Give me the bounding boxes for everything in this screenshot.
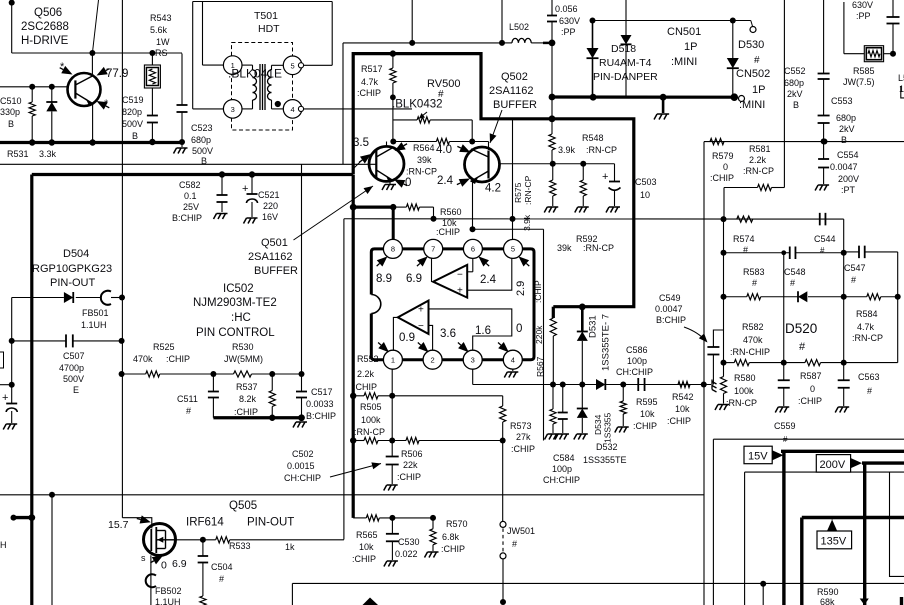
section border	[890, 472, 904, 576]
svg-text:C511: C511	[177, 394, 198, 404]
resistor R575	[544, 164, 558, 213]
resistor R570	[425, 518, 439, 558]
label R575 rotated	[513, 175, 533, 205]
svg-text:C586: C586	[626, 345, 648, 355]
svg-text:R530: R530	[232, 342, 254, 352]
capacitor C517	[296, 374, 307, 418]
diode D517	[621, 0, 632, 97]
connector CN501	[750, 21, 756, 33]
capacitor C552 col	[818, 0, 830, 116]
svg-text:IC502: IC502	[223, 283, 254, 295]
svg-text:#: #	[752, 278, 757, 288]
resistor R525 row	[119, 371, 305, 377]
resistor R574	[737, 216, 753, 222]
svg-text:CH:CHIP: CH:CHIP	[616, 367, 653, 377]
label D504	[32, 248, 112, 289]
resistor R573	[500, 396, 506, 441]
label R580	[726, 373, 757, 408]
inductor L502	[502, 38, 543, 43]
svg-text:R580: R580	[734, 373, 756, 383]
T501 pin1	[223, 56, 242, 75]
wire	[501, 0, 503, 43]
svg-text:R543: R543	[150, 13, 172, 23]
svg-text:L502: L502	[509, 22, 529, 32]
label L5 edge	[898, 73, 904, 94]
ground	[293, 418, 307, 428]
arrow down	[860, 599, 869, 605]
svg-text:0.022: 0.022	[395, 549, 418, 559]
transformer T501 dashed box	[232, 43, 293, 131]
thick bus 135V	[802, 518, 904, 605]
svg-text:C504: C504	[211, 562, 233, 572]
svg-text::RN-CP: :RN-CP	[743, 166, 774, 176]
svg-text:D534: D534	[593, 414, 603, 435]
svg-text:6: 6	[471, 245, 475, 254]
thick bus corner	[553, 304, 585, 319]
svg-text:4.2: 4.2	[485, 183, 501, 195]
wire	[193, 1, 333, 3]
wire	[51, 495, 53, 605]
svg-text::RN-CP: :RN-CP	[852, 333, 883, 343]
label C517	[306, 387, 336, 421]
label R565	[352, 530, 378, 564]
svg-text::CHIP: :CHIP	[710, 173, 734, 183]
svg-text:100k: 100k	[734, 386, 754, 396]
svg-text:R560: R560	[440, 207, 462, 217]
svg-text::RN-CP: :RN-CP	[583, 243, 614, 253]
svg-text::RN-CHIP: :RN-CHIP	[730, 347, 770, 357]
svg-text:15.7: 15.7	[108, 519, 129, 531]
svg-text:C507: C507	[63, 351, 85, 361]
wire	[473, 229, 544, 440]
label R582	[730, 322, 770, 357]
label 4.0	[436, 144, 452, 156]
wire	[0, 382, 15, 388]
svg-text::PP: :PP	[561, 27, 576, 37]
diode D533	[46, 87, 57, 143]
probe arrow 77.9	[58, 61, 112, 112]
svg-text:22k: 22k	[403, 460, 418, 470]
label CN502	[736, 68, 770, 111]
capacitor C519	[147, 116, 158, 143]
wire drain row	[175, 537, 215, 543]
label R564	[406, 143, 437, 177]
wire	[895, 252, 901, 363]
thick vertical	[350, 175, 356, 518]
svg-text:1SS355TE: 1SS355TE	[583, 455, 627, 465]
capacitor C586	[638, 378, 644, 391]
label R548	[558, 133, 617, 155]
label R585	[843, 66, 875, 87]
svg-text::CHIP: :CHIP	[667, 416, 691, 426]
capacitor C516	[2, 385, 17, 430]
wire	[703, 142, 705, 605]
svg-text:500V: 500V	[192, 146, 213, 156]
label C507	[59, 351, 85, 395]
label C544	[814, 234, 836, 255]
svg-text:Q505: Q505	[229, 500, 257, 512]
op-amp U1a wires	[432, 258, 512, 290]
svg-text:−: −	[457, 270, 463, 281]
svg-text:135V: 135V	[821, 536, 847, 548]
arrow 0 Q505	[148, 552, 167, 572]
svg-text:2.2k: 2.2k	[749, 155, 767, 165]
svg-text:200V: 200V	[820, 459, 846, 471]
svg-text:C523: C523	[191, 123, 213, 133]
svg-text:2SA1162: 2SA1162	[248, 251, 292, 263]
IC502 pin 1	[383, 350, 402, 369]
svg-text:2.9: 2.9	[515, 281, 527, 296]
T501 pin4	[283, 100, 302, 119]
svg-text:10k: 10k	[359, 542, 374, 552]
wire Q502 emitter	[470, 182, 476, 232]
svg-text:H: H	[0, 540, 7, 550]
svg-text:R579: R579	[712, 151, 734, 161]
diode D534	[574, 385, 588, 440]
svg-text:RU4AM-T4: RU4AM-T4	[599, 57, 652, 69]
svg-text:10k: 10k	[675, 404, 690, 414]
resistor R595	[615, 385, 629, 433]
svg-text:77.9: 77.9	[106, 68, 128, 80]
svg-text:C502: C502	[292, 449, 314, 459]
label C504	[211, 562, 233, 584]
label R560	[436, 207, 462, 237]
label C582	[172, 180, 202, 223]
svg-text:3.3k: 3.3k	[39, 149, 57, 159]
svg-text:100p: 100p	[627, 356, 647, 366]
resistor R579	[710, 139, 724, 145]
wire pin3	[193, 108, 224, 110]
svg-text:680p: 680p	[784, 78, 804, 88]
svg-text:D520: D520	[785, 321, 817, 336]
resistor R542	[678, 381, 690, 387]
vertical border	[121, 0, 123, 518]
label Q505	[186, 500, 294, 529]
label R574	[733, 234, 755, 255]
arrow 15V	[772, 450, 783, 460]
label C521	[258, 190, 280, 222]
svg-text:NJM2903M-TE2: NJM2903M-TE2	[193, 297, 277, 309]
svg-text:H-DRIVE: H-DRIVE	[21, 35, 69, 47]
thick bus R517 top	[353, 50, 634, 306]
svg-text:PIN-OUT: PIN-OUT	[50, 277, 96, 289]
label 3.6	[415, 328, 456, 355]
capacitor C544	[820, 213, 826, 226]
svg-text:JW501: JW501	[507, 526, 535, 536]
thick stub	[11, 514, 36, 521]
label R506	[397, 449, 423, 482]
svg-text::MINI: :MINI	[671, 56, 697, 68]
label 135V box	[817, 531, 852, 549]
wire	[549, 43, 556, 119]
svg-text:16V: 16V	[262, 212, 278, 222]
svg-text:470k: 470k	[743, 335, 763, 345]
svg-text:RGP10GPKG23: RGP10GPKG23	[32, 263, 112, 275]
svg-text::CHIP: :CHIP	[352, 554, 376, 564]
svg-text:s: s	[141, 553, 146, 563]
svg-text:0: 0	[723, 162, 728, 172]
label C503	[635, 177, 657, 200]
svg-text:5.6k: 5.6k	[150, 25, 168, 35]
svg-text:R581: R581	[749, 144, 771, 154]
svg-text::CHIP: :CHIP	[357, 88, 381, 98]
label D530	[738, 39, 764, 66]
label 2.9 rotated	[515, 253, 532, 296]
svg-text:2SC2688: 2SC2688	[21, 21, 69, 33]
label R584	[852, 309, 883, 343]
svg-text:#: #	[799, 341, 806, 353]
svg-text:100p: 100p	[552, 464, 572, 474]
pointer C502	[330, 460, 382, 477]
svg-text:JW(5MM): JW(5MM)	[224, 354, 263, 364]
label 4.2	[485, 183, 501, 195]
svg-text:C554: C554	[837, 150, 859, 160]
thick node	[213, 414, 305, 421]
svg-text:B:CHIP: B:CHIP	[306, 411, 336, 421]
svg-text::CHIP: :CHIP	[436, 227, 460, 237]
op-amp U1b	[398, 301, 429, 334]
diode D530	[727, 21, 739, 98]
resistor R543 boxed	[144, 53, 160, 116]
resistor R5xx	[545, 385, 559, 440]
label D531 rotated	[588, 315, 599, 338]
svg-text:R583: R583	[743, 267, 765, 277]
op-amp U1b wires	[393, 309, 511, 350]
wire	[783, 0, 785, 188]
svg-text:B: B	[132, 131, 138, 141]
svg-text:.BLK0432: .BLK0432	[392, 99, 443, 111]
label C563	[858, 372, 880, 396]
svg-text:E: E	[73, 385, 79, 395]
thick stub corner	[900, 597, 903, 605]
svg-text:200V: 200V	[838, 174, 859, 184]
svg-text:1SS355TE- 7: 1SS355TE- 7	[601, 314, 612, 371]
svg-text::RN-CP: :RN-CP	[586, 145, 617, 155]
section border row	[292, 583, 904, 605]
svg-text:R537: R537	[236, 382, 258, 392]
capacitor C563	[835, 363, 850, 413]
label 6.9 Q505	[172, 558, 187, 570]
section border	[745, 472, 904, 605]
svg-text:R542: R542	[672, 392, 694, 402]
svg-text:R570: R570	[446, 519, 468, 529]
ground pin4	[504, 369, 518, 377]
wire circle3 down	[472, 369, 474, 384]
capacitor C504	[198, 540, 209, 605]
thick bus 15V	[781, 451, 904, 605]
svg-text:.BLK041E: .BLK041E	[228, 67, 282, 81]
svg-text:R525: R525	[153, 342, 175, 352]
label R581	[743, 144, 774, 176]
row D520	[721, 291, 844, 302]
svg-text:B:CHIP: B:CHIP	[172, 213, 202, 223]
svg-text:R533: R533	[229, 541, 251, 551]
resistor R592	[575, 164, 589, 213]
arrow 200V	[851, 458, 862, 468]
svg-text::CHIP: :CHIP	[234, 407, 258, 417]
diode D518	[587, 21, 599, 98]
label R567 rotated	[535, 356, 545, 377]
svg-text:B: B	[8, 119, 14, 129]
label 3.5	[353, 137, 369, 149]
svg-text:#: #	[743, 245, 748, 255]
wire corner	[181, 54, 183, 106]
svg-text:5: 5	[291, 61, 295, 70]
svg-text:C544: C544	[814, 234, 836, 244]
label R552	[353, 354, 379, 392]
svg-text::CHIP: :CHIP	[633, 421, 657, 431]
arrow 15.7	[136, 514, 152, 526]
capacitor C502	[384, 441, 399, 491]
resistor R531	[29, 87, 35, 143]
label FB501	[81, 308, 109, 330]
svg-text::RN-CP: :RN-CP	[406, 167, 437, 177]
IC502 pin 7	[424, 239, 443, 258]
svg-text:25V: 25V	[183, 202, 199, 212]
wire row	[704, 139, 904, 145]
wire	[192, 2, 194, 109]
svg-text:+: +	[602, 171, 608, 183]
svg-text:C530: C530	[398, 537, 420, 547]
svg-text:#: #	[186, 406, 191, 416]
svg-text:6.8k: 6.8k	[442, 532, 460, 542]
svg-text:4700p: 4700p	[59, 363, 84, 373]
svg-text:8.9: 8.9	[376, 273, 392, 285]
ground	[654, 97, 669, 119]
wire	[12, 50, 182, 56]
label CHIP rotated	[533, 280, 543, 303]
label C559	[774, 421, 796, 444]
svg-text:C552: C552	[784, 66, 806, 76]
svg-text:D531: D531	[588, 315, 599, 338]
thick bus	[32, 171, 353, 177]
thick bus	[0, 139, 184, 146]
resistor R530	[234, 371, 302, 377]
svg-text:Q506: Q506	[34, 7, 62, 19]
svg-text:R575: R575	[513, 182, 523, 203]
svg-text:FB501: FB501	[82, 308, 109, 318]
label C502	[284, 449, 321, 483]
label 1.6	[455, 325, 491, 355]
svg-text:8.2k: 8.2k	[239, 394, 257, 404]
wire	[302, 2, 332, 66]
resistor R517	[390, 54, 396, 142]
label C553	[831, 96, 856, 145]
svg-text:8: 8	[391, 245, 395, 254]
wire	[723, 219, 725, 363]
label BLK041E	[228, 67, 282, 81]
svg-text:BUFFER: BUFFER	[254, 265, 298, 277]
node row	[473, 382, 711, 388]
ground	[174, 142, 188, 154]
wire Q502 collector row	[500, 161, 615, 167]
probe arrow 3.5	[352, 151, 373, 170]
transistor Q502	[465, 147, 500, 184]
resistor R565 row	[353, 515, 436, 521]
svg-text:#: #	[754, 55, 760, 66]
label 15V box	[744, 446, 772, 464]
label Q502	[489, 71, 537, 111]
svg-text:HDT: HDT	[258, 23, 280, 35]
svg-text:B: B	[793, 100, 799, 110]
label R543	[150, 13, 172, 58]
label Q506	[21, 7, 69, 47]
diode D5xx row	[596, 379, 605, 390]
svg-text:0.056: 0.056	[555, 4, 578, 14]
wire	[342, 43, 344, 164]
label R531	[7, 149, 57, 159]
connector pin	[298, 63, 303, 68]
diode D504 row	[12, 291, 125, 305]
svg-text:1.1UH: 1.1UH	[155, 597, 181, 605]
capacitor C530	[384, 518, 399, 567]
svg-text:R574: R574	[733, 234, 755, 244]
label 1SS355 rotated	[603, 412, 613, 443]
label R570	[441, 519, 468, 554]
label R583	[743, 267, 765, 288]
svg-text:100k: 100k	[361, 415, 381, 425]
svg-text:#: #	[790, 278, 795, 288]
svg-text:C582: C582	[179, 180, 201, 190]
label C548	[784, 267, 806, 288]
resistor R581 row	[724, 184, 784, 219]
label R595	[633, 397, 658, 431]
resistor R584	[844, 294, 898, 300]
svg-text:C563: C563	[858, 372, 880, 382]
svg-text:R552: R552	[357, 354, 379, 364]
connector CN502	[739, 96, 745, 102]
svg-text:0: 0	[161, 560, 167, 572]
label 8.9	[374, 253, 392, 285]
wire	[9, 0, 15, 53]
T501 phase dot	[275, 101, 280, 106]
svg-text:68k: 68k	[820, 597, 835, 605]
svg-text:CH:CHIP: CH:CHIP	[543, 475, 580, 485]
svg-text:0.0047: 0.0047	[830, 162, 858, 172]
IC502 pin 2	[423, 350, 442, 369]
wire	[781, 250, 786, 362]
jumper JW501	[500, 441, 506, 605]
svg-text:C521: C521	[258, 190, 280, 200]
op-amp U1a	[433, 265, 467, 298]
capacitor C5xx	[555, 385, 569, 440]
svg-text::PP: :PP	[856, 11, 871, 21]
svg-text:C517: C517	[311, 387, 333, 397]
wire	[203, 2, 224, 66]
capacitor C511	[208, 374, 219, 418]
resistor R548	[549, 119, 555, 164]
svg-text:1.6: 1.6	[475, 325, 491, 337]
label C549	[655, 293, 686, 325]
svg-text:3.5: 3.5	[353, 137, 369, 149]
label 3.9k rotated	[522, 214, 532, 231]
label 77.9	[106, 68, 128, 80]
label D520	[785, 321, 817, 353]
svg-text:R590: R590	[817, 587, 839, 597]
svg-text:CN502: CN502	[736, 68, 770, 80]
row R587	[721, 360, 898, 366]
long node wire	[344, 216, 844, 222]
svg-text:2kV: 2kV	[787, 89, 803, 99]
capacitor C582	[214, 175, 228, 220]
svg-text:FB502: FB502	[155, 586, 182, 596]
svg-text:3.9k: 3.9k	[522, 214, 532, 231]
label C552	[784, 66, 806, 110]
label 630V PP	[852, 0, 873, 21]
wire	[543, 40, 555, 47]
svg-text:10: 10	[640, 190, 650, 200]
wire	[841, 219, 847, 366]
